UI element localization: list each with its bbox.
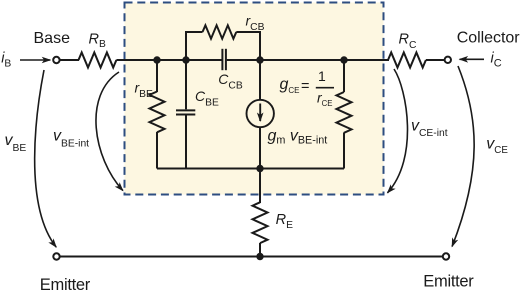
- svg-text:vBE: vBE: [5, 132, 27, 154]
- svg-text:vCE: vCE: [486, 136, 508, 156]
- svg-text:1: 1: [318, 68, 326, 84]
- wire: current source top lead: [259, 60, 261, 100]
- svg-text:RC: RC: [399, 31, 417, 50]
- wire: rBE bottom lead: [156, 132, 158, 169]
- capacitor CCB plates: [221, 49, 223, 70]
- resistor rCE (gCE): [337, 92, 352, 133]
- wire: rCB branch up from internal base node: [186, 32, 203, 60]
- svg-text:Collector: Collector: [457, 29, 520, 46]
- capacitor CBE plates: [176, 109, 195, 111]
- resistor rBE: [150, 92, 165, 133]
- svg-text:RE: RE: [276, 212, 293, 231]
- wire: rCE bottom lead: [343, 133, 345, 169]
- vBE measurement arc: [35, 70, 57, 247]
- wire: bottom emitter rail: [60, 256, 443, 258]
- emitter terminal right: [443, 253, 449, 259]
- vCE-int measurement arc: [388, 69, 408, 193]
- node: internal base node 2: [182, 56, 189, 63]
- svg-text:=: =: [301, 78, 309, 94]
- svg-text:vBE-int: vBE-int: [53, 127, 89, 149]
- resistor rCB: [203, 25, 237, 38]
- collector terminal: [445, 57, 451, 63]
- node: internal base node: [153, 56, 160, 63]
- wire: rCE top lead: [343, 60, 345, 92]
- wire: emitter branch down to RE: [259, 169, 261, 204]
- node: rCE top node: [340, 56, 347, 63]
- wire: CBE bottom lead: [185, 115, 187, 169]
- resistor RE: [253, 202, 268, 243]
- wire: current source bottom lead: [259, 127, 261, 168]
- current iC arrow: [460, 58, 484, 60]
- svg-text:Emitter: Emitter: [423, 272, 474, 290]
- wire: RE to emitter rail: [259, 243, 261, 257]
- current iB arrow: [20, 59, 50, 61]
- emitter terminal left: [53, 253, 59, 259]
- wire: rCB branch down to internal collector node: [236, 32, 260, 60]
- wire: RC to collector terminal: [426, 59, 444, 61]
- wire: CBE top lead: [185, 60, 187, 109]
- svg-text:vCE-int: vCE-int: [411, 117, 448, 139]
- resistor RC: [388, 53, 426, 68]
- svg-text:iB: iB: [1, 51, 11, 70]
- base input terminal: [53, 57, 59, 63]
- wire: CCB right plate to RC: [227, 59, 389, 61]
- wire: rBE top lead: [156, 60, 158, 92]
- vBE-int measurement arc: [96, 72, 123, 191]
- intrinsic transistor dashed box: [125, 3, 384, 195]
- svg-text:RB: RB: [89, 32, 106, 51]
- wire: RB to CCB left plate (base internal node line): [116, 59, 221, 61]
- node: internal emitter node: [256, 165, 263, 172]
- vCE measurement arc: [452, 66, 474, 247]
- wire: base lead from terminal to RB: [59, 59, 79, 61]
- node: emitter rail node: [256, 253, 263, 260]
- svg-text:iC: iC: [491, 50, 502, 69]
- svg-text:Base: Base: [34, 30, 71, 47]
- wire: internal emitter rail: [157, 168, 344, 170]
- dependent current source gm vBE-int: [247, 100, 274, 127]
- node: internal collector node: [256, 56, 263, 63]
- resistor RB: [79, 53, 117, 68]
- svg-text:Emitter: Emitter: [40, 276, 91, 292]
